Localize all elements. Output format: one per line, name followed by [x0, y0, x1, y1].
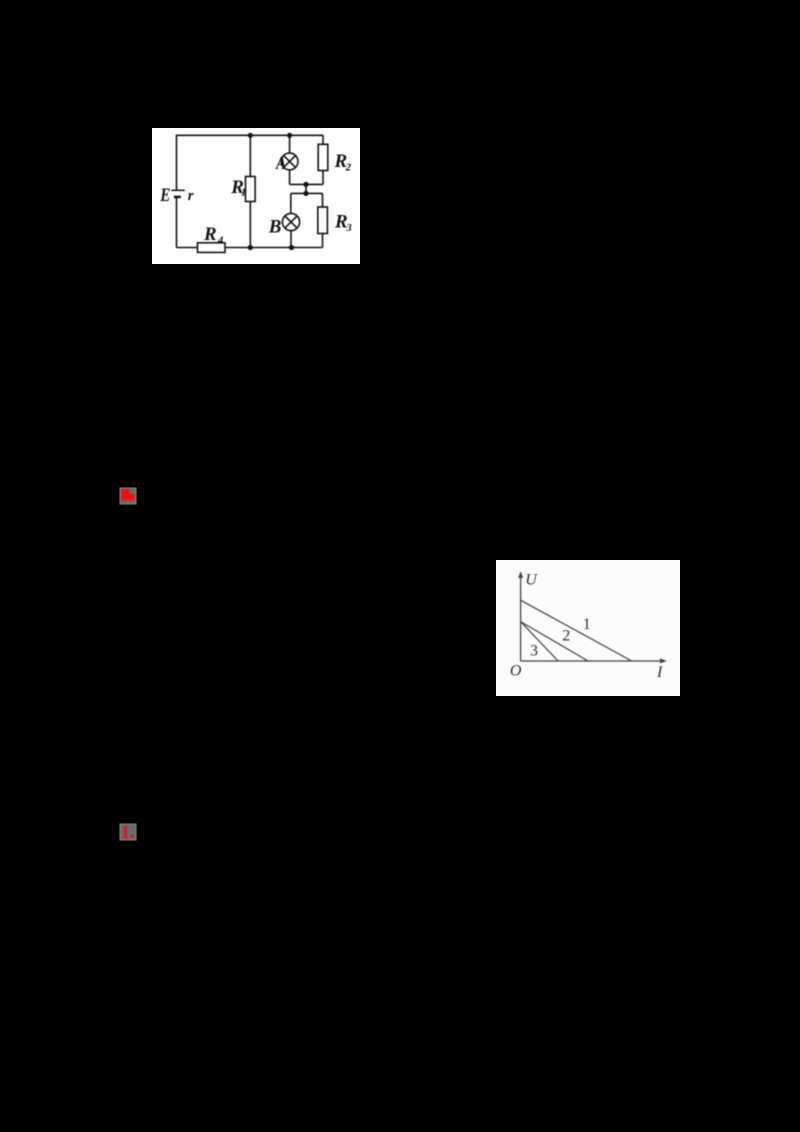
wire R2 branch lower [322, 171, 324, 185]
node bottom R1 [248, 245, 253, 250]
svg-text:4: 4 [217, 235, 224, 247]
wire lamp A branch upper [289, 135, 291, 153]
svg-text:2: 2 [345, 162, 352, 174]
svg-text:R: R [203, 224, 217, 245]
graph figure white panel [496, 560, 680, 696]
svg-text:U: U [525, 571, 538, 588]
svg-text:I: I [656, 664, 663, 681]
curve line 3 [521, 622, 559, 661]
svg-text:r: r [188, 188, 194, 204]
wire R3 branch upper [322, 193, 324, 207]
wire lamp A branch lower [289, 170, 291, 185]
svg-text:1: 1 [241, 186, 247, 198]
axis I horizontal [521, 660, 661, 662]
svg-text:3: 3 [345, 222, 352, 234]
lamp B [282, 213, 299, 230]
battery E r [171, 190, 185, 197]
arrowhead axis I [660, 659, 667, 664]
svg-text:2: 2 [562, 628, 570, 645]
resistor R4 [198, 243, 226, 253]
red question marker 1 [119, 487, 137, 505]
svg-text:O: O [510, 663, 522, 680]
curve line 2 [521, 622, 588, 661]
wire lamp B branch lower [290, 230, 292, 247]
resistor R1 [246, 177, 256, 202]
wire link between junctions [305, 184, 307, 193]
node bottom B [289, 245, 294, 250]
arrowhead axis U [518, 571, 523, 578]
node junction A-R2 [303, 182, 308, 187]
node junction B-R3 [303, 191, 308, 196]
svg-text:B: B [268, 217, 282, 238]
resistor R3 [318, 207, 328, 234]
wire R1 branch upper [249, 135, 251, 176]
svg-text:A: A [275, 152, 286, 173]
curve line 1 [521, 600, 632, 661]
wire bottom horizontal [177, 247, 323, 249]
wire R3 branch lower [322, 234, 324, 248]
svg-text:1.: 1. [121, 823, 135, 841]
circuit figure white panel [152, 128, 360, 264]
red question marker 2 [119, 823, 137, 841]
wire left vertical lower [176, 197, 178, 248]
wire lamp B branch upper [290, 193, 292, 213]
svg-text:3: 3 [530, 643, 538, 660]
wire junction B-R3 [291, 192, 323, 194]
wire R1 branch lower [249, 202, 251, 248]
wire left vertical upper [176, 135, 178, 191]
wire R2 branch upper [322, 135, 324, 144]
lamp A [281, 153, 298, 170]
resistor R2 [318, 144, 328, 170]
wire top horizontal [177, 134, 324, 136]
node top A [287, 133, 292, 138]
svg-text:1: 1 [583, 616, 591, 633]
node top R1 [248, 133, 253, 138]
wire junction A-R2 [290, 183, 323, 185]
svg-text:E: E [159, 184, 170, 205]
axis U vertical [520, 577, 522, 661]
